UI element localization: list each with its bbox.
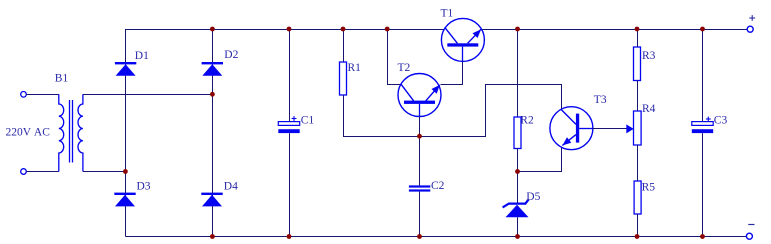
wire T3 base to R4 wiper [593,128,627,130]
resistor R3 [634,47,641,81]
svg-text:B1: B1 [55,73,69,85]
wire top rail left section (+ rail to T1 collector) [125,29,444,31]
wire R4 to R5 [637,145,639,181]
svg-text:C1: C1 [301,114,315,126]
junction bottom rail 6 [700,234,705,239]
wire base node to T3 collector [420,85,562,137]
svg-text:D1: D1 [135,50,149,62]
transformer B1 core line right [72,100,74,163]
wire R2 bottom [517,149,519,172]
svg-text:220V AC: 220V AC [6,127,51,139]
transistor T1 base lead [462,47,464,62]
svg-text:T3: T3 [594,94,607,106]
transistor T1 emitter arrow [473,29,482,38]
transformer B1 secondary winding [78,94,83,171]
svg-text:R5: R5 [642,182,656,194]
junction bottom rail 4 [515,234,520,239]
transistor T3 collector line [561,110,576,125]
junction secondary top / right branch [210,92,215,97]
output terminal plus [747,26,753,32]
wire chain top [637,29,639,47]
svg-text:D2: D2 [224,49,238,61]
transistor T1 circle [441,18,484,61]
wire C2 top [419,136,421,185]
svg-text:T2: T2 [398,62,411,74]
junction top rail 3 [341,27,346,32]
wire R3 to R4 [637,81,639,112]
wire C3 bottom [702,133,704,236]
wire C3 top [702,29,704,122]
AC input terminal bottom [21,169,27,175]
wire AC top to primary [26,94,58,96]
wire C2 bottom [419,192,421,237]
transformer B1 core line left [69,100,71,163]
capacitor C3 [692,122,713,133]
diode D4 [201,193,222,207]
plus sign C3 [706,117,711,122]
AC input terminal top [21,92,27,98]
transistor T1 emitter line [468,29,481,43]
junction top rail 2 [287,27,292,32]
wire R1 top [343,29,345,62]
junction top rail 6 [635,27,640,32]
wire T2 base to node [419,116,421,136]
transistor T2 emitter line [426,85,440,101]
wire bottom rail [125,236,746,238]
plus sign C1 [292,116,297,121]
transistor T3 base lead [579,128,593,130]
transistor T2 circle [398,74,441,117]
svg-text:R1: R1 [348,62,362,74]
transformer B1 primary winding [59,94,64,171]
transistor T3 circle [550,107,593,150]
svg-text:D3: D3 [137,181,151,193]
junction bottom rail 5 [635,234,640,239]
wire AC bottom to primary [26,171,58,173]
wire R2 top [517,29,519,117]
junction top rail 1 [210,27,215,32]
zener diode D5 [503,199,529,217]
transistor T3 emitter line [562,135,576,146]
wire T2 collector drop [388,30,402,85]
wire top rail right section (T1 emitter to + output) [481,29,747,31]
svg-text:R2: R2 [520,115,534,127]
R4 wiper arrow [626,124,633,133]
wire secondary bottom to bridge left branch [83,171,126,173]
junction bottom rail 1 [210,234,215,239]
transistor T1 base bar [447,43,478,46]
resistor R2 [514,117,521,149]
wire chain bottom [637,214,639,237]
wire R1 bottom to base node [344,96,420,137]
junction top rail 4 [385,27,390,32]
capacitor C2 [409,185,430,191]
junction top rail 7 [700,27,705,32]
diode D1 [115,62,136,76]
transistor T2 emitter arrow [432,85,440,94]
transistor T2 base bar [404,101,435,104]
junction R2/D5/T3 emitter [515,169,520,174]
junction bottom rail 3 [417,234,422,239]
svg-text:T1: T1 [441,8,454,20]
wire bridge left branch vertical [125,29,127,237]
transistor T3 base bar [576,114,579,143]
wire C1 branch lower [289,133,291,236]
wire T2 emitter to T1 base [441,47,463,85]
svg-text:D4: D4 [224,181,238,193]
wire R2 bottom node to T3 emitter [518,148,562,172]
transistor T1 collector line [445,28,458,44]
wire D5 top [517,172,519,204]
capacitor C1 [278,122,299,133]
output terminal minus [746,233,752,239]
junction bottom rail 2 [287,234,292,239]
junction base node [417,134,422,139]
wire secondary top to bridge right branch [83,94,213,96]
junction secondary bottom / left branch [123,169,128,174]
resistor R5 [634,181,641,214]
svg-text:R4: R4 [642,103,656,115]
minus sign output [748,224,754,226]
svg-text:D5: D5 [526,191,540,203]
svg-text:C2: C2 [431,180,445,192]
wire C1 branch upper [289,29,291,122]
transistor T2 collector line [401,84,414,101]
wire D5 bottom [517,217,519,236]
svg-text:C3: C3 [714,114,728,126]
potentiometer R4 [634,111,642,145]
wire bridge right branch vertical [212,29,214,237]
resistor R1 [340,62,347,95]
diode D2 [202,62,223,76]
transistor T3 emitter arrow [562,137,571,145]
diode D3 [114,193,135,207]
junction top rail 5 [515,27,520,32]
svg-text:R3: R3 [642,50,656,62]
transistor T2 base lead [419,104,421,117]
plus sign output [749,15,755,21]
